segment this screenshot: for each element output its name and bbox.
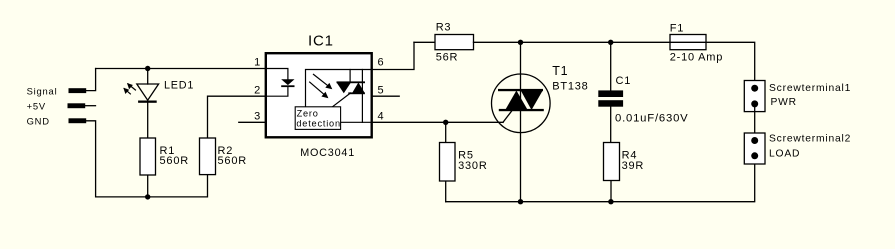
wire IC1 inner box <box>306 70 372 107</box>
svg-text:560R: 560R <box>160 155 190 167</box>
svg-text:56R: 56R <box>436 52 459 64</box>
wire Signal to top rail <box>86 69 96 91</box>
svg-text:BT138: BT138 <box>552 80 588 92</box>
svg-text:1: 1 <box>254 57 261 69</box>
svg-text:Screwterminal2: Screwterminal2 <box>769 134 851 145</box>
pin pad PWR bottom <box>751 100 758 107</box>
wire top rail left of R3 <box>414 41 435 43</box>
svg-text:2-10 Amp: 2-10 Amp <box>670 51 723 63</box>
svg-text:MOC3041: MOC3041 <box>300 147 355 159</box>
wire internal pin4 link <box>341 121 371 123</box>
wire internal triac MT1 to pin4 <box>361 70 363 123</box>
LED LED1 <box>123 83 158 103</box>
junction LED1 top <box>145 66 150 71</box>
zero crossing block <box>295 107 340 130</box>
wire top rail R3 to PWR <box>474 42 755 88</box>
junction bottom rail R4 <box>608 199 613 204</box>
wire R4 to bottom rail <box>610 181 612 202</box>
svg-text:+5V: +5V <box>27 100 46 111</box>
wire R1 to bottom rail <box>147 175 149 197</box>
wire T1 MT2 drop and MT1 to bottom rail <box>520 42 522 201</box>
wire pin6 to top rail <box>372 42 415 69</box>
svg-text:3: 3 <box>254 110 261 122</box>
svg-text:Zero: Zero <box>297 108 319 118</box>
opto-triac IC1 body <box>266 53 372 137</box>
resistor R4 <box>604 143 620 181</box>
svg-text:6: 6 <box>378 57 385 69</box>
junction bottom rail T1 <box>518 199 523 204</box>
svg-text:detection: detection <box>296 118 341 128</box>
connector pad GND <box>69 118 87 123</box>
diode IC1 input LED <box>281 79 294 85</box>
svg-text:5: 5 <box>378 84 385 96</box>
connector pad +5V <box>68 103 86 108</box>
svg-text:PWR: PWR <box>771 97 797 108</box>
resistor R5 <box>440 143 456 182</box>
fuse F1 <box>670 35 706 50</box>
connector pad Signal <box>69 88 87 93</box>
capacitor C1 <box>598 90 623 106</box>
pin pad LOAD top <box>751 137 758 144</box>
triac T1 <box>492 74 551 133</box>
opto arrow 1 <box>313 74 332 89</box>
wire gate diagonal T1 <box>503 111 512 122</box>
wire R5 to bottom rail <box>445 181 447 202</box>
pin pad LOAD bottom <box>751 152 758 159</box>
screw terminal Screwterminal2 <box>744 133 765 164</box>
svg-text:560R: 560R <box>218 155 248 167</box>
junction top rail C1 <box>608 40 613 45</box>
svg-text:F1: F1 <box>670 22 684 34</box>
wire pin5 stub <box>372 95 400 97</box>
wire bottom rail <box>446 156 755 202</box>
svg-text:LED1: LED1 <box>164 79 194 91</box>
svg-text:C1: C1 <box>616 75 632 87</box>
wire C1 top <box>610 42 612 90</box>
junction pin4/R5 <box>443 120 448 125</box>
resistor R3 <box>435 35 474 50</box>
wire net rail pin1 <box>96 68 266 70</box>
svg-text:39R: 39R <box>622 160 645 172</box>
junction top rail T1 <box>518 40 523 45</box>
screw terminal Screwterminal1 <box>744 81 765 112</box>
wire pin2 to R2 <box>208 96 266 138</box>
resistor R1 <box>140 138 156 175</box>
svg-text:R3: R3 <box>436 22 452 34</box>
wire R5 drop <box>445 122 447 142</box>
svg-text:IC1: IC1 <box>308 32 334 49</box>
wire GND to bottom rail to R2 <box>86 121 208 197</box>
wire IC1 internal input loop <box>266 69 288 80</box>
internal photo-triac <box>337 81 366 94</box>
svg-text:Screwterminal1: Screwterminal1 <box>769 83 851 94</box>
svg-text:2: 2 <box>254 84 261 96</box>
wire C1 bottom to R4 <box>610 107 612 143</box>
opto arrow 2 <box>309 82 328 99</box>
svg-text:T1: T1 <box>552 64 568 78</box>
wire +5V stub <box>85 105 96 107</box>
wire pin4 to gate <box>372 121 504 123</box>
wire LED1 cathode to R1 <box>147 103 149 138</box>
wire internal gate diagonal <box>332 93 350 107</box>
wire LED1 anode drop <box>147 69 149 85</box>
pin pad PWR top <box>751 85 758 92</box>
svg-text:LOAD: LOAD <box>769 148 800 159</box>
svg-text:Signal: Signal <box>27 85 58 96</box>
svg-text:0.01uF/630V: 0.01uF/630V <box>615 112 689 124</box>
wire PWR pad2 to LOAD pad3 <box>754 104 756 141</box>
wire pin3 stub <box>239 121 266 123</box>
svg-text:330R: 330R <box>458 160 488 172</box>
resistor R2 <box>200 138 216 175</box>
junction R1 bottom <box>145 194 150 199</box>
wire internal triac MT2 riser <box>349 70 351 82</box>
svg-text:GND: GND <box>27 116 50 127</box>
svg-text:4: 4 <box>378 110 385 122</box>
